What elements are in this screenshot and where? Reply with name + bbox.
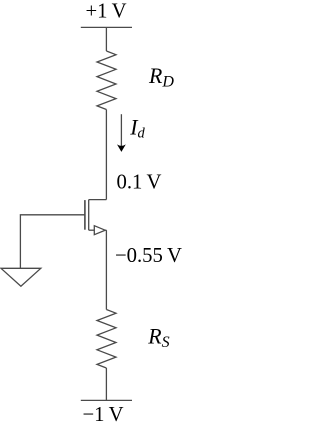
transistor Q1 drain lead xyxy=(89,199,107,201)
current arrow Id shaft xyxy=(120,114,122,147)
svg-text:−1 V: −1 V xyxy=(82,404,123,426)
svg-text:+1 V: +1 V xyxy=(85,1,126,23)
node -1V supply bar xyxy=(81,399,132,401)
resistor RS xyxy=(97,310,116,369)
transistor Q1 gate plate xyxy=(84,200,86,230)
transistor Q1 source lead xyxy=(89,229,95,231)
wire gate to ground xyxy=(20,215,85,268)
wire source stub xyxy=(105,229,106,231)
transistor Q1 channel bar xyxy=(88,200,90,231)
resistor RD xyxy=(97,51,116,110)
wire RS to -1V bar xyxy=(105,368,107,400)
svg-text:0.1 V: 0.1 V xyxy=(117,172,162,194)
wire supply to RD xyxy=(105,27,107,51)
wire RD to drain xyxy=(105,110,107,200)
ground xyxy=(1,268,41,286)
node +1V supply bar xyxy=(81,26,132,28)
current arrow Id head xyxy=(117,144,126,152)
wire source to RS xyxy=(105,230,107,309)
svg-text:−0.55 V: −0.55 V xyxy=(115,245,182,267)
transistor Q1 source arrow xyxy=(94,226,105,235)
